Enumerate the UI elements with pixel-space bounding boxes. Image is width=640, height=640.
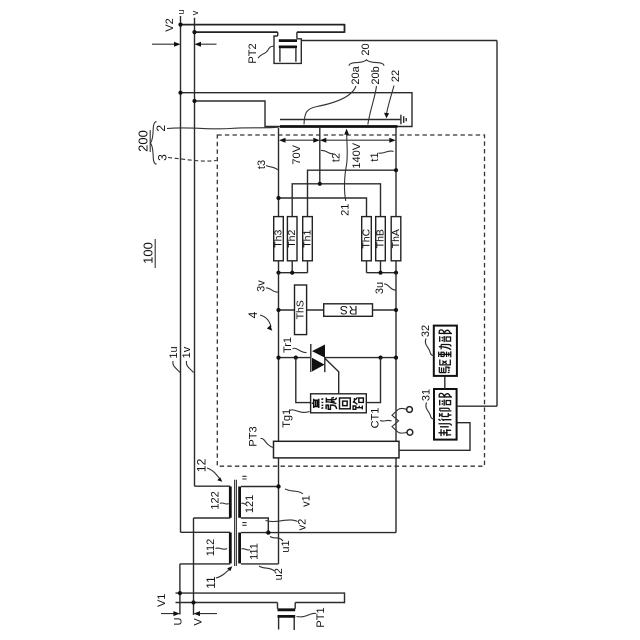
svg-text:ThS: ThS xyxy=(295,300,307,319)
winding 112 xyxy=(229,533,232,564)
leader 3 dashed xyxy=(168,158,217,162)
thermistor ThC xyxy=(362,217,372,261)
wire u to 112 top xyxy=(181,531,231,533)
wire v to 122 xyxy=(195,485,231,487)
leader 2 xyxy=(167,127,279,129)
svg-text:Tg1: Tg1 xyxy=(281,409,293,428)
wire control-drive link xyxy=(444,376,446,389)
junction dot V rail xyxy=(191,600,195,604)
wire PT3 to control xyxy=(399,423,470,451)
wire 3u below PT3 xyxy=(395,458,397,533)
svg-text:v2: v2 xyxy=(296,519,308,531)
pickup coil PT3 xyxy=(274,441,400,458)
svg-text:t2: t2 xyxy=(331,153,343,162)
wire right vertical to control unit xyxy=(496,41,498,407)
heater assembly outline xyxy=(181,93,413,127)
svg-text:PT3: PT3 xyxy=(248,426,260,446)
junction dot v-lamp xyxy=(192,30,196,34)
svg-text:22: 22 xyxy=(390,70,402,82)
junction dot ThS left xyxy=(276,308,280,312)
junction dot u-heater xyxy=(178,91,182,95)
svg-text:u: u xyxy=(176,9,186,14)
rail V xyxy=(176,602,345,604)
leader 122 xyxy=(220,503,229,504)
svg-text:2: 2 xyxy=(154,125,168,132)
svg-text:70V: 70V xyxy=(291,144,303,164)
junction dot u-lamp xyxy=(178,23,182,27)
heater lamp 2 right end xyxy=(344,24,346,33)
svg-text:Tr1: Tr1 xyxy=(282,337,294,353)
junction dot v-heater xyxy=(192,99,196,103)
brace 20 xyxy=(349,60,384,66)
leader PT1 xyxy=(297,613,317,617)
wire RS to 3u xyxy=(373,309,397,311)
wire t3 vertical xyxy=(278,128,280,217)
svg-text:31: 31 xyxy=(421,389,433,401)
svg-text:ThC: ThC xyxy=(361,228,373,248)
triac bus left xyxy=(279,357,311,359)
brace 200 xyxy=(151,122,157,165)
svg-text:140V: 140V xyxy=(351,142,363,168)
junction dot t2 xyxy=(318,182,322,186)
leader PT3 xyxy=(261,438,274,447)
control unit 31 xyxy=(434,389,457,440)
svg-text:Th2: Th2 xyxy=(286,229,298,247)
svg-text:V2: V2 xyxy=(164,18,176,31)
wire 3u vertical xyxy=(395,273,397,442)
wire v to electrode xyxy=(195,101,281,127)
wire control to PT2 loop xyxy=(457,405,497,407)
leader v1 xyxy=(285,489,303,494)
leader t3 xyxy=(266,166,278,170)
wire 121 top to 3v xyxy=(241,486,279,488)
dashed enclosure 3 xyxy=(217,135,484,466)
earth layer 22 xyxy=(280,119,400,121)
svg-text:u2: u2 xyxy=(273,568,285,580)
wire 3v below PT3 xyxy=(278,458,280,564)
svg-text:V: V xyxy=(193,618,205,626)
wire 3v vertical xyxy=(278,273,280,442)
drive unit 32 xyxy=(434,326,457,376)
svg-text:112: 112 xyxy=(205,539,217,557)
svg-text:20: 20 xyxy=(360,43,372,55)
svg-text:v1: v1 xyxy=(301,495,313,507)
leader 21 arrow xyxy=(344,133,347,201)
leader 121 xyxy=(242,503,247,504)
current transformer CT1 xyxy=(392,409,399,432)
svg-text:1v: 1v xyxy=(181,346,193,358)
wire 112 bottom to U rail xyxy=(180,564,230,615)
leader 11 arrow xyxy=(216,569,230,578)
svg-text:100: 100 xyxy=(141,242,156,264)
junction dot t3-ThC xyxy=(276,196,280,200)
wire Th1 top xyxy=(308,170,397,216)
wire 122 bottom to V rail xyxy=(194,518,231,615)
junction dot U rail xyxy=(178,591,182,595)
leader 112 xyxy=(216,548,228,549)
svg-text:21: 21 xyxy=(340,204,352,216)
svg-text:Th1: Th1 xyxy=(302,229,314,247)
winding 111 xyxy=(238,533,241,564)
junction dot t1-Th1 xyxy=(394,168,398,172)
svg-text:111: 111 xyxy=(249,543,261,560)
svg-text:1u: 1u xyxy=(168,346,180,358)
leader CT1 xyxy=(380,419,392,422)
junction dot v1 xyxy=(276,484,280,488)
ground xyxy=(401,115,406,125)
svg-text:200: 200 xyxy=(136,130,151,152)
svg-text:CT1: CT1 xyxy=(370,408,382,429)
rail U xyxy=(176,592,345,594)
leader 20b xyxy=(368,86,377,125)
leader 31 xyxy=(426,403,434,420)
transformer PT2 xyxy=(274,32,301,63)
svg-text:ThA: ThA xyxy=(390,229,402,248)
svg-text:12: 12 xyxy=(194,458,208,472)
leader 32 xyxy=(425,339,433,356)
wire 111 bottom to 3v xyxy=(241,563,279,565)
underline 100 xyxy=(154,239,156,268)
heater lamp 2 bottom edge xyxy=(195,31,345,33)
svg-text:v: v xyxy=(190,10,200,15)
leader t1 xyxy=(379,151,394,153)
dimension V1 xyxy=(161,613,217,615)
leader 111 xyxy=(242,549,251,550)
wire PT2 to control loop top xyxy=(301,40,497,42)
wire ignition right xyxy=(366,358,380,403)
wire u vertical left rail xyxy=(180,16,182,532)
leader Tg1 xyxy=(289,410,310,413)
wire Th feet right xyxy=(367,261,397,273)
winding 122 xyxy=(229,487,232,518)
leader v2 xyxy=(266,520,298,522)
underline 200 xyxy=(149,130,151,152)
rail right end xyxy=(344,592,346,603)
wire Th feet left xyxy=(279,261,308,273)
wire t2 vertical xyxy=(319,128,321,184)
wire t1 vertical xyxy=(395,128,397,217)
leader u1 xyxy=(270,537,283,542)
wire Th2-ThB top xyxy=(292,184,380,217)
junction dots Th bus xyxy=(276,271,280,275)
svg-text:3v: 3v xyxy=(256,280,268,292)
svg-text:t3: t3 xyxy=(256,160,268,169)
wire 121 bottom xyxy=(241,518,268,533)
leader 20a xyxy=(304,86,356,124)
winding 121 xyxy=(238,487,241,518)
leader 4 arrow xyxy=(260,315,271,327)
transformer PT1 xyxy=(278,603,296,609)
thermostat ThS xyxy=(279,309,324,311)
thermistor ThA xyxy=(391,217,401,261)
svg-text:PT1: PT1 xyxy=(315,607,327,627)
leader 3u xyxy=(384,284,396,290)
junction dots triac bus xyxy=(276,356,280,360)
svg-text:3: 3 xyxy=(156,154,170,161)
leader 22 arrow xyxy=(387,86,395,115)
leader 3v xyxy=(266,288,278,292)
transformer core xyxy=(235,480,237,566)
triac gate wire xyxy=(325,358,339,394)
svg-text:4: 4 xyxy=(246,311,260,318)
dimension V2 xyxy=(152,43,217,45)
svg-text:Th3: Th3 xyxy=(273,229,285,247)
svg-text:U: U xyxy=(173,617,185,625)
svg-text:20b: 20b xyxy=(370,66,382,84)
wire gate drive left xyxy=(296,358,311,403)
svg-text:RS: RS xyxy=(339,303,358,317)
leader t2 xyxy=(321,150,333,153)
polarity marks lower xyxy=(242,523,246,526)
svg-text:PT2: PT2 xyxy=(247,43,259,63)
svg-text:ThB: ThB xyxy=(375,229,387,248)
svg-text:t1: t1 xyxy=(369,152,381,161)
thermistor Th2 xyxy=(287,217,297,261)
svg-text:V1: V1 xyxy=(156,594,168,607)
triac bus right xyxy=(325,357,396,359)
ignition circuit box xyxy=(311,394,367,413)
junction dot RS right xyxy=(394,308,398,312)
leader 1v xyxy=(186,361,193,373)
svg-text:11: 11 xyxy=(204,576,218,589)
leader 12 arrow xyxy=(207,468,220,479)
leader u2 xyxy=(259,566,275,571)
dimension 70V xyxy=(282,139,318,141)
svg-text:20a: 20a xyxy=(350,65,362,84)
thermistor Th1 xyxy=(303,217,313,261)
svg-text:u1: u1 xyxy=(280,540,292,552)
resistor RS xyxy=(324,304,373,317)
leader 1u xyxy=(173,361,180,373)
svg-text:32: 32 xyxy=(420,325,432,337)
polarity marks upper xyxy=(242,476,246,479)
leader PT2 xyxy=(258,46,274,58)
svg-text:122: 122 xyxy=(210,491,222,509)
thermistor Th3 xyxy=(274,217,284,261)
heater lamp 2 top edge xyxy=(181,24,345,26)
wire v vertical left rail xyxy=(194,18,196,486)
leader Tr1 xyxy=(293,348,307,352)
electrode bar 20 xyxy=(280,125,398,128)
triac Tr1 xyxy=(310,344,312,372)
thermistor ThB xyxy=(376,217,386,261)
dimension 140V xyxy=(322,139,393,141)
junction dot u1 xyxy=(266,530,270,534)
wire u1 horizontal xyxy=(241,532,396,534)
wire Th3-ThC top xyxy=(279,198,367,217)
